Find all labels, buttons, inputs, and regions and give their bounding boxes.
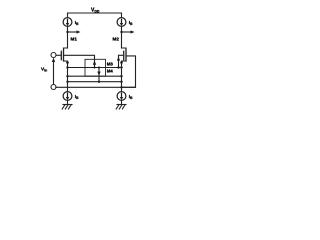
wire VDD rail bbox=[68, 13, 122, 18]
branch current arrow right bbox=[122, 30, 135, 33]
current source IB2 (top right) bbox=[117, 18, 126, 27]
svg-text:M1: M1 bbox=[71, 37, 78, 42]
wire M1 bulk to box top bbox=[64, 55, 95, 59]
input terminal circle (-) bbox=[51, 85, 56, 90]
wire M2 gate drop with up arrow bbox=[117, 55, 120, 67]
node rail3 right dot bbox=[120, 81, 122, 83]
label M3 bbox=[107, 61, 114, 66]
label IB1 bbox=[75, 20, 79, 26]
wire right branch lower bbox=[121, 68, 123, 92]
svg-text:IB: IB bbox=[75, 94, 79, 100]
svg-text:IB: IB bbox=[129, 20, 133, 26]
node rail3 stub dot bbox=[98, 81, 100, 83]
svg-text:M2: M2 bbox=[113, 37, 120, 42]
wire left branch upper bbox=[67, 26, 69, 48]
current source IB4 (bottom right) bbox=[117, 92, 126, 101]
svg-text:M3: M3 bbox=[107, 61, 114, 66]
ground left bbox=[62, 100, 72, 109]
label M2 bbox=[113, 37, 120, 42]
svg-text:IB: IB bbox=[75, 20, 79, 26]
current source IB3 (bottom left) bbox=[63, 92, 72, 101]
wire right branch upper bbox=[121, 26, 123, 48]
node rail1 box dots bbox=[94, 67, 96, 69]
wire rail4 bottom bbox=[56, 86, 136, 88]
label M4 bbox=[107, 68, 114, 73]
wire left branch lower bbox=[67, 68, 69, 92]
node rail4 dot bbox=[120, 86, 122, 88]
node rail2 right dot bbox=[120, 75, 122, 77]
node VDD label bbox=[91, 8, 100, 14]
wire rail3 bbox=[68, 81, 122, 83]
branch current arrow left bbox=[68, 30, 81, 33]
transistor M1 bbox=[61, 48, 69, 68]
box M3/M4 bbox=[85, 59, 106, 76]
node rail1 left dot bbox=[66, 66, 68, 68]
svg-text:VDD: VDD bbox=[91, 8, 100, 14]
label IB3 bbox=[75, 94, 79, 100]
label IB2 bbox=[129, 20, 133, 26]
node rail1 right dot bbox=[120, 66, 122, 68]
label M1 bbox=[71, 37, 78, 42]
label IB4 bbox=[129, 94, 133, 100]
node drain M2 junction dot bbox=[120, 31, 122, 33]
wire M2 gate lead bbox=[119, 54, 124, 56]
M3 arrow up inside box bbox=[93, 59, 96, 67]
svg-text:M4: M4 bbox=[107, 68, 114, 73]
svg-text:Vin: Vin bbox=[41, 67, 47, 73]
svg-text:IB: IB bbox=[129, 94, 133, 100]
node rail2 left dot bbox=[66, 75, 68, 77]
wire rail1 source M1 to gate M2 bbox=[68, 67, 122, 69]
Vin arrow bbox=[52, 58, 55, 85]
M4 arrow down inside box bbox=[97, 68, 100, 77]
node gate M2 dot on rail1 bbox=[117, 66, 119, 68]
wire M2 bulk loop right bbox=[122, 56, 136, 87]
ground right bbox=[116, 100, 126, 109]
label Vin bbox=[41, 67, 47, 73]
transistor M2 bbox=[120, 48, 126, 68]
wire box bottom stub bbox=[98, 76, 100, 82]
node drain M1 junction dot bbox=[66, 31, 68, 33]
input terminal circle (+) bbox=[51, 53, 56, 58]
wire M1 gate lead bbox=[56, 54, 61, 56]
node rail3 left dot bbox=[66, 81, 68, 83]
current source IB1 (top left) bbox=[63, 18, 72, 27]
wire rail2 bbox=[68, 75, 122, 77]
